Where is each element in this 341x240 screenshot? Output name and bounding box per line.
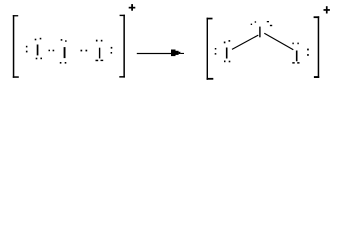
lone pair left of I1	[26, 46, 28, 53]
bonding pair I2-I3	[81, 50, 88, 52]
lone pair below I2	[60, 62, 66, 64]
bond I4-I5	[232, 35, 258, 49]
plus charge of reactant	[129, 4, 136, 11]
plus charge of product	[324, 6, 330, 13]
lone pair above I6	[292, 43, 298, 45]
lone pair below I1	[36, 58, 42, 60]
lone pair below I3	[96, 60, 104, 62]
lone pair above I5	[224, 40, 230, 43]
atom I3 (right iodine, reactant)	[99, 48, 100, 59]
bonding pair I1-I2	[49, 50, 55, 52]
atom I1 (left iodine, reactant)	[37, 45, 39, 56]
atom I2 (central iodine, reactant)	[64, 47, 66, 58]
lone pair right of I6	[307, 49, 309, 56]
reaction arrow	[137, 50, 184, 57]
lone pair upper-right of I4	[267, 21, 272, 26]
left bracket [ of product	[207, 18, 214, 80]
lone pair right of I3	[111, 47, 113, 54]
atom I5 (lower-left iodine, product)	[226, 48, 228, 59]
left bracket [ of reactant	[13, 15, 19, 78]
bond I4-I6	[264, 33, 293, 50]
lone pair upper-left of I4	[251, 21, 256, 25]
right bracket ] of reactant	[119, 15, 125, 78]
atom I4 (apex iodine, product)	[259, 27, 260, 38]
lone pair left of I5	[215, 48, 217, 55]
lone pair above I2	[61, 39, 67, 42]
lone pair below I5	[224, 61, 230, 63]
lone pair above I3	[96, 40, 103, 42]
lone pair above I1	[35, 38, 42, 41]
lone pair below I6	[292, 62, 299, 64]
right bracket ] of product	[314, 16, 320, 78]
atom I6 (lower-right iodine, product)	[296, 51, 298, 62]
